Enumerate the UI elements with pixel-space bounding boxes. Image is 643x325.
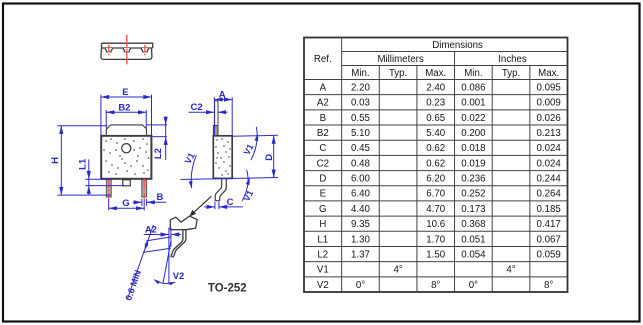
dim A2 xyxy=(168,228,170,285)
svg-text:V2: V2 xyxy=(317,280,329,291)
svg-text:0.022: 0.022 xyxy=(461,113,485,124)
svg-text:C2: C2 xyxy=(191,102,203,113)
svg-text:4.70: 4.70 xyxy=(426,204,445,215)
svg-text:Inches: Inches xyxy=(498,54,527,65)
side view tab gray strip xyxy=(213,126,218,136)
svg-text:0.62: 0.62 xyxy=(426,143,445,154)
svg-text:0.001: 0.001 xyxy=(461,98,485,109)
svg-text:0.62: 0.62 xyxy=(426,158,445,169)
svg-text:A: A xyxy=(320,83,327,94)
svg-text:8°: 8° xyxy=(544,280,553,291)
svg-text:Millimeters: Millimeters xyxy=(377,54,423,65)
svg-text:0.417: 0.417 xyxy=(537,219,561,230)
dim L1 xyxy=(85,178,112,180)
svg-text:V1: V1 xyxy=(241,189,255,203)
front view center stub xyxy=(123,180,131,186)
top view pin 1 xyxy=(105,48,112,52)
top view pin 2 xyxy=(123,48,130,52)
svg-text:9.35: 9.35 xyxy=(351,219,370,230)
side bottom extension line xyxy=(181,178,278,180)
svg-text:B2: B2 xyxy=(317,128,329,139)
svg-text:0.067: 0.067 xyxy=(537,234,561,245)
dim B2 xyxy=(105,110,107,129)
svg-text:2.20: 2.20 xyxy=(351,83,370,94)
svg-text:G: G xyxy=(319,204,327,215)
svg-text:6.00: 6.00 xyxy=(351,174,370,185)
svg-text:0.55: 0.55 xyxy=(351,113,370,124)
svg-text:0.252: 0.252 xyxy=(461,189,485,200)
svg-text:6.70: 6.70 xyxy=(426,189,445,200)
svg-text:0.264: 0.264 xyxy=(537,189,562,200)
svg-text:L2: L2 xyxy=(317,250,328,261)
svg-text:H: H xyxy=(319,219,326,230)
svg-text:0.024: 0.024 xyxy=(537,158,562,169)
dim B xyxy=(141,199,143,206)
side view thin tab top xyxy=(215,101,218,126)
svg-text:G: G xyxy=(122,198,129,209)
front view left pin xyxy=(106,180,111,197)
detail body corner (break outline) xyxy=(170,216,197,230)
svg-text:0.051: 0.051 xyxy=(461,234,485,245)
svg-text:B: B xyxy=(320,113,326,124)
svg-text:4°: 4° xyxy=(393,265,402,276)
svg-text:0.200: 0.200 xyxy=(461,128,486,139)
svg-text:0.23: 0.23 xyxy=(426,98,445,109)
svg-text:6.40: 6.40 xyxy=(351,189,370,200)
dim 0.6 MIN xyxy=(127,225,153,300)
side view speckles xyxy=(215,138,230,175)
side view lead xyxy=(215,179,226,201)
svg-text:1.30: 1.30 xyxy=(351,234,370,245)
svg-text:0.019: 0.019 xyxy=(461,158,485,169)
dim D xyxy=(273,136,275,178)
svg-text:A: A xyxy=(219,90,226,101)
svg-text:0.65: 0.65 xyxy=(426,113,445,124)
dim L2 xyxy=(147,124,167,126)
svg-text:4°: 4° xyxy=(506,265,515,276)
dimensions table grid xyxy=(304,38,568,293)
dim E xyxy=(100,95,102,136)
svg-text:E: E xyxy=(122,87,128,98)
svg-text:0.45: 0.45 xyxy=(351,143,370,154)
svg-text:0.009: 0.009 xyxy=(537,98,561,109)
front right pin centerline xyxy=(143,179,145,199)
svg-text:V1: V1 xyxy=(317,265,329,276)
svg-text:C: C xyxy=(227,197,234,208)
angle V2 xyxy=(163,242,171,284)
front view mounting hole xyxy=(122,144,131,153)
svg-text:0.173: 0.173 xyxy=(461,204,485,215)
front left pin centerline xyxy=(108,179,110,199)
dim C2 xyxy=(189,111,215,113)
svg-text:Max.: Max. xyxy=(538,68,559,79)
side view body xyxy=(213,136,232,179)
front view mold speckles xyxy=(103,138,149,175)
svg-text:0.368: 0.368 xyxy=(461,219,485,230)
dim G xyxy=(108,199,110,211)
top view pin 3 xyxy=(142,48,149,52)
svg-text:1.70: 1.70 xyxy=(426,234,445,245)
svg-text:1.37: 1.37 xyxy=(351,250,370,261)
svg-text:0.026: 0.026 xyxy=(537,113,561,124)
svg-text:Max.: Max. xyxy=(425,68,446,79)
svg-text:Ref.: Ref. xyxy=(314,54,332,65)
svg-text:0°: 0° xyxy=(469,280,478,291)
svg-text:0°: 0° xyxy=(356,280,365,291)
svg-text:10.6: 10.6 xyxy=(426,219,445,230)
svg-text:V2: V2 xyxy=(173,271,185,282)
svg-text:0.018: 0.018 xyxy=(461,143,485,154)
svg-text:Min.: Min. xyxy=(464,68,482,79)
svg-text:8°: 8° xyxy=(431,280,440,291)
dim A xyxy=(213,97,215,135)
svg-text:2.40: 2.40 xyxy=(426,83,445,94)
top view step line xyxy=(102,47,153,49)
svg-text:Min.: Min. xyxy=(351,68,369,79)
svg-text:V1: V1 xyxy=(183,151,197,165)
svg-text:0.213: 0.213 xyxy=(537,128,561,139)
front view body xyxy=(101,136,151,179)
svg-text:5.40: 5.40 xyxy=(426,128,445,139)
svg-text:1.50: 1.50 xyxy=(426,250,445,261)
front view right pin xyxy=(142,180,147,197)
dim C xyxy=(214,202,216,210)
top view centerline pin 1 xyxy=(108,45,110,56)
svg-text:C: C xyxy=(319,143,326,154)
svg-text:A2: A2 xyxy=(317,98,329,109)
svg-text:0.024: 0.024 xyxy=(537,143,562,154)
svg-text:L1: L1 xyxy=(317,234,328,245)
svg-text:H: H xyxy=(50,157,61,164)
svg-text:Typ.: Typ. xyxy=(502,68,520,79)
svg-text:E: E xyxy=(320,189,327,200)
dim H xyxy=(58,125,108,127)
front view tab xyxy=(106,125,146,135)
svg-text:Dimensions: Dimensions xyxy=(432,40,483,51)
angle V1 bottom right xyxy=(242,170,248,201)
svg-text:L1: L1 xyxy=(78,158,89,170)
svg-text:6.20: 6.20 xyxy=(426,174,445,185)
svg-text:0.185: 0.185 xyxy=(537,204,561,215)
svg-text:0.236: 0.236 xyxy=(461,174,485,185)
svg-text:B: B xyxy=(156,192,163,203)
svg-text:L2: L2 xyxy=(153,148,164,159)
svg-text:5.10: 5.10 xyxy=(351,128,370,139)
svg-text:0.059: 0.059 xyxy=(537,250,561,261)
side top extension line xyxy=(232,135,278,136)
svg-text:TO-252: TO-252 xyxy=(208,282,247,294)
svg-text:Typ.: Typ. xyxy=(389,68,407,79)
detail callout arrow xyxy=(191,196,212,215)
top view centerline pin 3 xyxy=(144,45,146,56)
svg-text:0.48: 0.48 xyxy=(351,158,370,169)
angle V1 top right xyxy=(251,127,257,160)
svg-text:0.6 MIN: 0.6 MIN xyxy=(123,269,143,302)
svg-text:0.244: 0.244 xyxy=(537,174,562,185)
svg-text:D: D xyxy=(264,154,275,161)
angle V1 left xyxy=(191,155,196,188)
svg-text:0.03: 0.03 xyxy=(351,98,370,109)
svg-text:0.086: 0.086 xyxy=(461,83,485,94)
svg-text:A2: A2 xyxy=(145,224,157,235)
top end view outline xyxy=(101,43,153,59)
svg-text:B2: B2 xyxy=(118,102,130,113)
svg-text:0.095: 0.095 xyxy=(537,83,561,94)
svg-text:4.40: 4.40 xyxy=(351,204,370,215)
svg-text:C2: C2 xyxy=(317,158,329,169)
svg-text:D: D xyxy=(319,174,326,185)
top view centerline pin 2 (long) xyxy=(126,35,128,66)
svg-text:0.054: 0.054 xyxy=(461,250,486,261)
detail lead xyxy=(171,230,186,257)
